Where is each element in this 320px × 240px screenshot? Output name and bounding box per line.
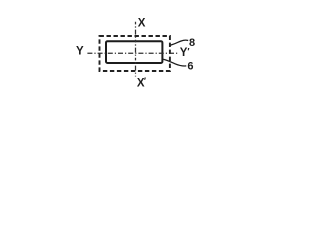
svg-text:X: X (138, 18, 146, 30)
svg-text:Y: Y (76, 45, 84, 57)
svg-text:6: 6 (187, 61, 193, 73)
svg-text:8: 8 (189, 37, 195, 49)
svg-text:′: ′ (144, 76, 146, 86)
